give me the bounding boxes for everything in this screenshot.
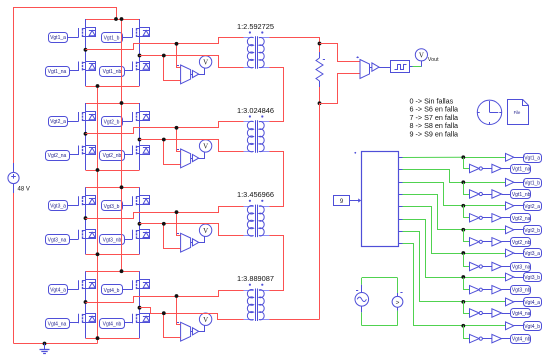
svg-text:Vgt1_a: Vgt1_a — [50, 35, 66, 41]
svg-text:Vgt4_nb: Vgt4_nb — [512, 337, 531, 343]
svg-text:Vgt2_a: Vgt2_a — [524, 204, 540, 210]
svg-text:9 -> S9 en falla: 9 -> S9 en falla — [410, 129, 459, 138]
svg-text:48 V: 48 V — [18, 187, 30, 193]
svg-text:Vgt3_na: Vgt3_na — [512, 265, 531, 271]
svg-text:Vgt4_a: Vgt4_a — [524, 300, 540, 306]
svg-text:Vgt2_nb: Vgt2_nb — [103, 153, 122, 159]
svg-text:Vgt2_a: Vgt2_a — [50, 119, 66, 125]
svg-text:Vgt1_b: Vgt1_b — [524, 180, 540, 186]
svg-text:>: > — [396, 299, 400, 306]
svg-text:1:2.592725: 1:2.592725 — [237, 22, 274, 31]
svg-text:Vgt2_na: Vgt2_na — [512, 216, 531, 222]
svg-text:Vgt3_na: Vgt3_na — [48, 237, 67, 243]
svg-text:Vgt4_b: Vgt4_b — [524, 324, 540, 330]
svg-text:Vgt4_b: Vgt4_b — [104, 288, 120, 294]
svg-text:Vgt1_a: Vgt1_a — [524, 155, 540, 161]
svg-text:Vgt1_b: Vgt1_b — [104, 36, 120, 42]
svg-text:1:3.024846: 1:3.024846 — [237, 106, 274, 115]
svg-text:Vgt4_nb: Vgt4_nb — [103, 321, 122, 327]
svg-text:Vgt1_na: Vgt1_na — [512, 167, 531, 173]
svg-text:Vgt2_na: Vgt2_na — [48, 153, 67, 159]
svg-text:Vgt3_b: Vgt3_b — [524, 275, 540, 281]
svg-text:Vgt2_b: Vgt2_b — [524, 228, 540, 234]
svg-text:Vgt2_nb: Vgt2_nb — [512, 240, 531, 246]
svg-text:Vgt3_a: Vgt3_a — [50, 204, 66, 210]
svg-text:1:3.889087: 1:3.889087 — [237, 274, 274, 283]
svg-text:Vgt1_na: Vgt1_na — [48, 69, 67, 75]
svg-text:Vout: Vout — [428, 57, 439, 63]
svg-text:Vgt3_nb: Vgt3_nb — [512, 288, 531, 294]
svg-text:1:3.456966: 1:3.456966 — [237, 190, 274, 199]
svg-text:Vgt4_a: Vgt4_a — [50, 287, 66, 293]
svg-text:Vgt2_b: Vgt2_b — [104, 120, 120, 126]
svg-text:Vgt3_nb: Vgt3_nb — [103, 237, 122, 243]
svg-text:Vgt1_nb: Vgt1_nb — [512, 192, 531, 198]
svg-text:Vgt4_na: Vgt4_na — [512, 311, 531, 317]
svg-text:Vgt3_b: Vgt3_b — [104, 204, 120, 210]
svg-text:Vgt4_na: Vgt4_na — [48, 321, 67, 327]
svg-text:V: V — [203, 143, 208, 151]
svg-text:File: File — [514, 110, 521, 115]
svg-text:Vgt3_a: Vgt3_a — [524, 251, 540, 257]
svg-text:V: V — [203, 227, 208, 235]
svg-text:Vgt1_nb: Vgt1_nb — [103, 69, 122, 75]
svg-text:V: V — [203, 59, 208, 67]
svg-text:V: V — [419, 52, 424, 60]
svg-text:V: V — [203, 316, 208, 324]
